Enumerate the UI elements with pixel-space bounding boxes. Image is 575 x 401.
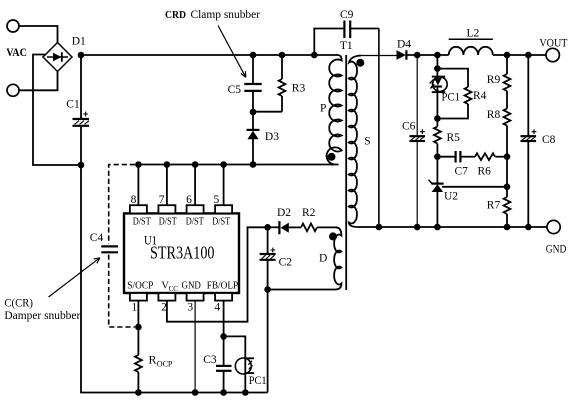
svg-text:D/ST: D/ST [186, 217, 204, 228]
svg-text:PC1: PC1 [249, 375, 267, 387]
svg-text:D3: D3 [265, 131, 279, 143]
svg-text:C3: C3 [203, 354, 217, 366]
svg-text:OCP: OCP [157, 360, 173, 369]
svg-text:GND: GND [546, 244, 567, 256]
svg-text:2: 2 [161, 302, 167, 314]
svg-text:U2: U2 [444, 191, 458, 203]
svg-text:CRD: CRD [165, 9, 186, 21]
svg-text:4: 4 [215, 302, 221, 314]
svg-text:S/OCP: S/OCP [127, 281, 153, 292]
svg-text:D2: D2 [277, 207, 291, 219]
svg-text:7: 7 [159, 194, 165, 206]
svg-text:C5: C5 [228, 84, 242, 96]
svg-text:D/ST: D/ST [159, 217, 177, 228]
svg-text:C7: C7 [455, 165, 469, 177]
svg-text:CC: CC [169, 285, 179, 293]
svg-text:C6: C6 [402, 121, 416, 133]
svg-text:GND: GND [182, 281, 202, 292]
svg-text:C(CR): C(CR) [4, 298, 33, 310]
svg-text:R: R [149, 353, 157, 367]
svg-text:C9: C9 [340, 9, 354, 21]
svg-text:R9: R9 [487, 74, 501, 86]
svg-text:C4: C4 [90, 232, 104, 244]
svg-text:Damper snubber: Damper snubber [4, 310, 80, 322]
svg-text:R5: R5 [447, 132, 461, 144]
svg-text:T1: T1 [340, 40, 353, 52]
svg-text:C8: C8 [542, 134, 556, 146]
svg-text:S: S [364, 135, 370, 147]
svg-text:C1: C1 [66, 99, 80, 111]
svg-text:6: 6 [186, 194, 192, 206]
svg-text:D4: D4 [397, 39, 411, 51]
svg-text:L2: L2 [467, 27, 480, 39]
svg-text:1: 1 [132, 302, 138, 314]
svg-text:D/ST: D/ST [212, 217, 230, 228]
svg-text:8: 8 [131, 194, 137, 206]
svg-text:STR3A100: STR3A100 [150, 243, 215, 263]
svg-text:D1: D1 [72, 35, 86, 47]
svg-text:FB/OLP: FB/OLP [207, 281, 239, 292]
svg-text:3: 3 [187, 302, 193, 314]
svg-text:C2: C2 [279, 256, 293, 268]
svg-text:R7: R7 [487, 199, 501, 211]
svg-text:VOUT: VOUT [539, 37, 567, 49]
svg-text:5: 5 [214, 194, 220, 206]
svg-text:R3: R3 [292, 83, 306, 95]
svg-text:PC1: PC1 [442, 92, 461, 104]
svg-text:R6: R6 [478, 165, 492, 177]
svg-text:P: P [320, 103, 326, 115]
svg-text:VAC: VAC [6, 47, 27, 59]
svg-text:Clamp snubber: Clamp snubber [191, 9, 261, 21]
svg-text:R2: R2 [302, 207, 316, 219]
svg-text:R4: R4 [473, 90, 487, 102]
svg-text:D/ST: D/ST [133, 217, 151, 228]
svg-text:R8: R8 [487, 109, 501, 121]
svg-text:D: D [319, 253, 327, 265]
